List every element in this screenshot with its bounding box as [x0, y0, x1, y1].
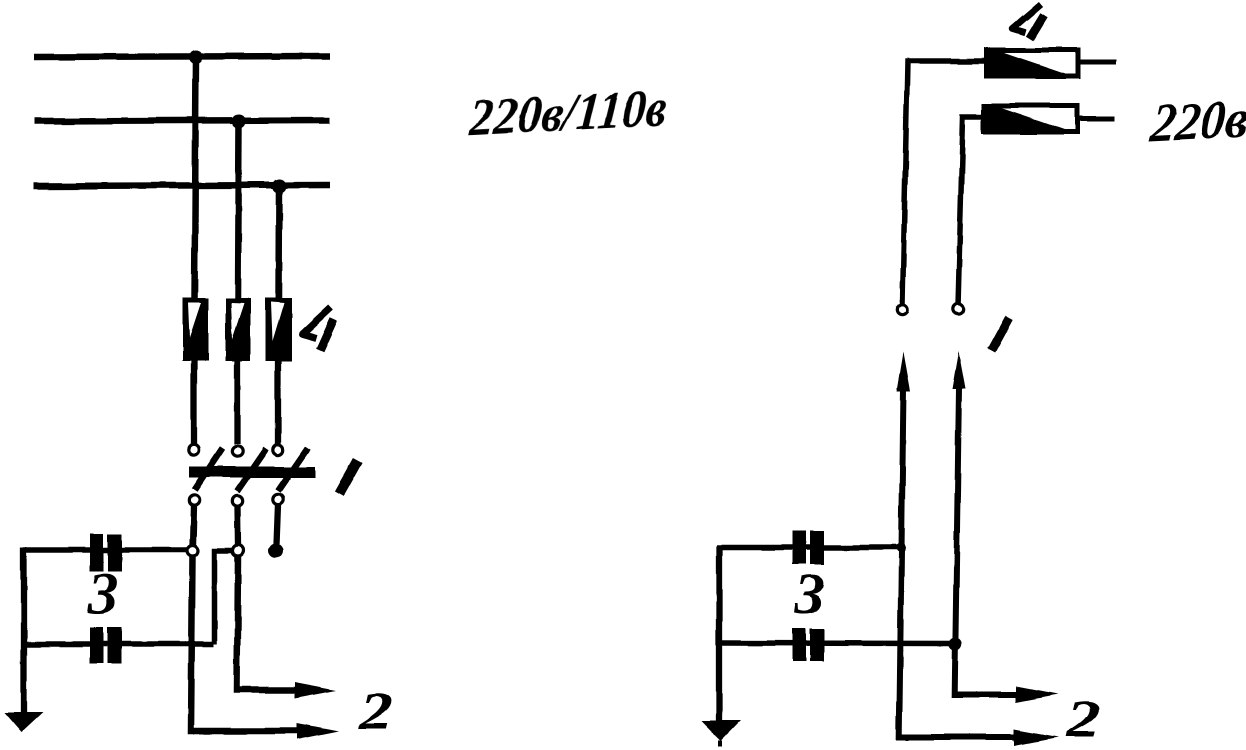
- node: bus C tap junction: [272, 179, 286, 193]
- wire: pole 2 drop from bus B to fuse: [238, 121, 239, 300]
- node: pole 3 dead end (solid dot): [269, 544, 284, 559]
- node: bus A tap junction: [189, 50, 203, 64]
- ground symbol (left): [4, 713, 43, 733]
- wire: pole 3 drop from bus C to fuse: [275, 186, 282, 300]
- svg-text:2: 2: [1065, 689, 1100, 749]
- svg-text:220в/110в: 220в/110в: [467, 79, 670, 147]
- wire: jog from node B down to capacitor bottom feed: [215, 551, 234, 645]
- node: bus B tap junction: [232, 114, 246, 128]
- switch 1 blade pole 3: [278, 448, 308, 491]
- svg-text:220в: 220в: [1148, 88, 1246, 153]
- switch 1 blade pole 2: [237, 449, 266, 491]
- switch 1 fixed contact pole 2: [232, 446, 242, 456]
- capacitor 3 bottom plate left (right circuit): [793, 629, 807, 661]
- wire: capacitor top feed (left): [21, 547, 187, 553]
- capacitor 3 top plate right (right circuit): [810, 531, 824, 565]
- arrowhead: upper output (right): [1016, 686, 1058, 702]
- switch 1 fixed contact pole 3: [273, 445, 283, 455]
- capacitor 3 bottom plate right (right circuit): [810, 629, 824, 661]
- wire: pole 2 fuse to switch contact: [234, 361, 240, 444]
- node B: pole 2 jog tap (open circle): [233, 546, 244, 557]
- ground symbol (right): [701, 721, 740, 747]
- svg-text:2: 2: [358, 681, 393, 741]
- svg-text:3: 3: [87, 561, 118, 626]
- wire: lower fuse left lead and pole R drop: [958, 118, 984, 307]
- arrowhead: upper output (left): [294, 682, 336, 698]
- fuse 4 upper (right circuit): [986, 50, 1078, 76]
- switch 1 moving contact pole 3: [273, 494, 283, 504]
- wire: lower fuse right lead: [1077, 116, 1115, 121]
- fuse 4 pole 3 (left circuit): [266, 298, 292, 362]
- arrowhead: lower output (right): [1014, 729, 1058, 746]
- label 4 (right fuses): [1013, 4, 1044, 38]
- wire: ground riser (left circuit): [20, 547, 26, 714]
- wire: capacitor bottom feed (left): [21, 641, 214, 647]
- wire: pole 1 contact down to node A: [193, 505, 194, 546]
- capacitor 3 top plate right: [108, 534, 122, 572]
- wire: phase bus A (left circuit): [34, 56, 330, 57]
- wire: pole L down to lower output (right): [899, 388, 1022, 737]
- svg-text:3: 3: [794, 562, 825, 627]
- fuse 4 pole 2 (left circuit): [226, 298, 252, 361]
- wire: capacitor bottom feed (right): [717, 640, 956, 646]
- wire: pole 2 to upper output: [237, 557, 300, 691]
- switch 1 moving contact pole 1: [189, 495, 199, 505]
- label 4 (left fuses): [302, 307, 334, 350]
- switch 1 upper contact pole L (right): [897, 304, 907, 314]
- wire: pole 1 to lower output: [191, 557, 305, 732]
- label 1 (right switch): [991, 318, 1009, 351]
- wire: pole R down to upper output (right): [955, 388, 1022, 694]
- node: pole R / capacitor bottom junction (right): [949, 638, 962, 651]
- switch 1 blade arrowhead pole R (right): [953, 351, 967, 389]
- wire: capacitor top feed (right): [717, 545, 902, 551]
- node: pole L / capacitor top junction (right): [896, 543, 906, 553]
- wire: upper fuse right lead: [1078, 60, 1116, 65]
- fuse 4 pole 1 (left circuit): [183, 298, 209, 361]
- switch 1 upper contact pole R (right): [953, 303, 963, 313]
- wire: pole 1 fuse to switch contact: [191, 361, 197, 444]
- wire: pole 2 contact down to node B: [234, 506, 241, 547]
- switch 1 moving contact pole 2: [232, 495, 242, 505]
- switch 1 blade arrowhead pole L (right): [897, 352, 911, 391]
- fuse 4 lower (right circuit): [984, 106, 1077, 132]
- capacitor 3 bottom plate right: [108, 627, 122, 664]
- wire: pole 3 stub: [277, 505, 279, 545]
- capacitor 3 top plate left: [90, 534, 104, 572]
- switch 1 fixed contact pole 1: [189, 445, 199, 455]
- switch 1 blade pole 1: [195, 448, 223, 490]
- switch 1 linkage bar: [190, 467, 316, 478]
- wire: ground riser (right circuit): [716, 546, 722, 722]
- capacitor 3 bottom plate left: [90, 627, 104, 664]
- capacitor 3 top plate left (right circuit): [793, 531, 807, 565]
- wire: phase bus C (left circuit): [34, 185, 330, 186]
- arrowhead: lower output (left): [297, 723, 339, 740]
- wire: pole 3 fuse to switch contact: [275, 361, 281, 444]
- wire: pole 1 drop from bus A to fuse: [195, 57, 197, 300]
- node A: pole 1 capacitor tap (open circle): [187, 546, 198, 557]
- label 1 (left switch): [339, 460, 358, 494]
- wire: phase bus B (left circuit): [34, 120, 330, 121]
- wire: upper fuse left lead and pole L drop: [903, 61, 987, 304]
